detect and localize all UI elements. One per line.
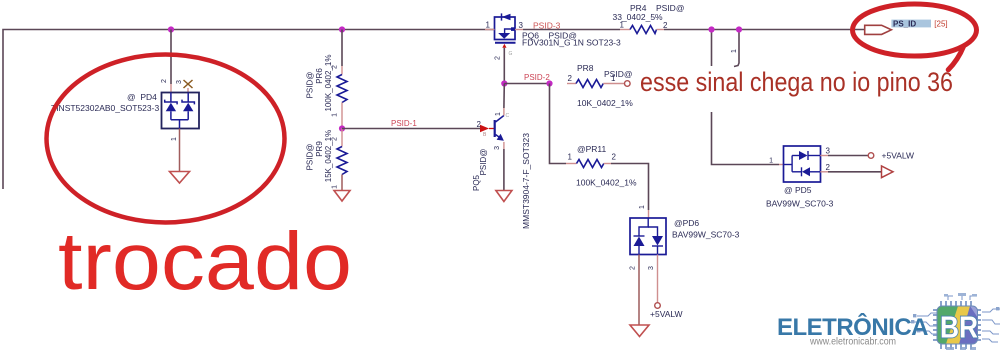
svg-text:1: 1	[495, 112, 502, 116]
mosfet PQ6 FDV301N	[495, 17, 516, 40]
wire: PD6 pin2 to ground	[638, 255, 640, 326]
wire: down from PSID-2 to PR11 row	[550, 84, 567, 164]
svg-text:BAV99W_SC70-3: BAV99W_SC70-3	[766, 199, 834, 209]
node junction at x=342 top wire	[339, 26, 345, 32]
svg-text:1: 1	[769, 158, 773, 165]
svg-text:100K_0402_1%: 100K_0402_1%	[576, 178, 637, 188]
red gate pin arrow	[502, 44, 506, 48]
svg-text:BAV99W_SC70-3: BAV99W_SC70-3	[672, 230, 740, 240]
node junction at x=171 top wire	[168, 26, 174, 32]
internal connection and source arrow	[511, 27, 515, 31]
transistor PQ5 MMST3904 NPN	[494, 120, 496, 137]
wire: stub down at x=739 with hook and pin label 1	[734, 30, 739, 67]
svg-text:PS_ID: PS_ID	[893, 19, 916, 28]
wire: PD5 pin3 to +5VALW	[820, 155, 828, 157]
svg-text:1: 1	[486, 21, 491, 30]
svg-text:2: 2	[826, 163, 831, 172]
svg-text:PSID@: PSID@	[306, 72, 315, 99]
svg-text:www.eletronicabr.com: www.eletronicabr.com	[809, 337, 896, 348]
svg-text:esse sinal chega no io pino 36: esse sinal chega no io pino 36	[640, 67, 953, 97]
svg-text:1: 1	[568, 153, 573, 162]
svg-text:2: 2	[477, 120, 482, 129]
wire: top horizontal net PSID-3 left section	[3, 30, 495, 190]
wire: PD5 pin2 to off-page arrow	[820, 171, 828, 173]
svg-text:PQ5: PQ5	[472, 174, 481, 191]
svg-text:PR6: PR6	[315, 68, 324, 84]
red ellipse around PD4	[47, 55, 285, 223]
resistor PR6 100K_0402_1% vertical	[337, 75, 347, 103]
svg-text:BR: BR	[940, 310, 978, 345]
svg-text:15K_0402_1%: 15K_0402_1%	[324, 130, 333, 183]
svg-text:@ PD4: @ PD4	[127, 92, 157, 102]
diode PD4 dual zener TVS box	[162, 93, 200, 129]
terminal circle +5VALW	[868, 153, 874, 159]
node junction PSID-2/PR8	[546, 80, 552, 86]
svg-text:PSID-1: PSID-1	[391, 119, 417, 128]
svg-text:10K_0402_1%: 10K_0402_1%	[577, 98, 633, 108]
svg-text:33_0402_5%: 33_0402_5%	[613, 12, 664, 22]
svg-text:C: C	[506, 113, 510, 119]
svg-text:1: 1	[332, 113, 339, 117]
svg-text:1: 1	[171, 137, 178, 141]
svg-text:PR8: PR8	[577, 63, 594, 73]
wire: top horizontal net right of PQ6 to PR4	[523, 29, 620, 31]
svg-text:PSID-2: PSID-2	[524, 73, 550, 82]
wire: PD6 pin3 to +5VALW	[657, 255, 659, 303]
terminal circle +5VALW	[655, 303, 661, 309]
node junction at x=711.5 top wire	[708, 26, 714, 32]
svg-text:1: 1	[332, 185, 339, 189]
svg-text:[25]: [25]	[934, 20, 947, 29]
port PS_ID pentagon	[865, 25, 892, 34]
svg-text:3: 3	[176, 80, 183, 84]
wire: emitter down to ground	[503, 142, 505, 149]
svg-text:+5VALW: +5VALW	[650, 309, 683, 319]
pin3 stub	[515, 29, 523, 31]
svg-text:1: 1	[639, 205, 646, 209]
svg-text:2: 2	[161, 79, 168, 83]
no-connect X on PD4 pin3	[187, 88, 189, 93]
wire: from top wire to PR6	[341, 30, 343, 67]
terminal circle PSID@	[625, 81, 631, 87]
svg-text:PSID@: PSID@	[604, 69, 632, 79]
wire: vertical to PD5 pin1 below red text	[712, 112, 780, 165]
ground symbol PD6	[630, 325, 649, 337]
red input arrow into PQ5 base	[480, 125, 489, 133]
red ellipse around PS_ID with tail	[853, 4, 977, 56]
ground symbol PR9	[334, 191, 350, 202]
ground symbol PD4	[170, 172, 190, 184]
chip pins	[933, 301, 981, 349]
svg-text:3: 3	[519, 21, 524, 30]
svg-text:+5VALW: +5VALW	[882, 151, 915, 161]
resistor PR9 15K_0402_1% vertical	[341, 129, 343, 147]
wire: stub down at x=711.5 from top wire	[711, 30, 713, 67]
svg-text:100K_0402_1%: 100K_0402_1%	[324, 55, 333, 112]
svg-text:1: 1	[731, 49, 738, 53]
diode PD5 BAV99W dual	[779, 164, 784, 166]
svg-text:PR9: PR9	[315, 141, 324, 157]
wire: gate down to PSID-2	[503, 48, 505, 84]
svg-text:G: G	[509, 51, 513, 57]
svg-text:trocado: trocado	[58, 216, 352, 307]
resistor PR4 33_0402_5%	[613, 3, 685, 34]
resistor PR11 100K_0402_1%	[566, 163, 577, 165]
svg-text:2: 2	[630, 266, 637, 270]
svg-text:3: 3	[648, 266, 655, 270]
node junction at x=739 top wire	[736, 26, 742, 32]
svg-text:@PD6: @PD6	[674, 218, 699, 228]
svg-text:3: 3	[826, 147, 831, 156]
resistor PR8 10K_0402_1%	[567, 83, 576, 85]
svg-text:MMST3904-7-F_SOT323: MMST3904-7-F_SOT323	[521, 133, 531, 229]
svg-text:2: 2	[612, 153, 617, 162]
svg-text:PSID-3: PSID-3	[533, 20, 561, 30]
svg-text:@ PD5: @ PD5	[784, 185, 812, 195]
svg-text:TINST52302AB0_SOT523-3: TINST52302AB0_SOT523-3	[51, 103, 159, 113]
svg-text:PSID@: PSID@	[479, 149, 488, 176]
off-page arrow port	[882, 166, 894, 178]
wire: PR11 pin2 to PD6 pin1	[611, 164, 649, 211]
wire: PD4 pin1 to ground	[179, 129, 181, 172]
node junction PSID-1 at x=342	[339, 125, 345, 131]
wire: PR4 pin2 to PS_ID port	[664, 29, 865, 31]
wire: PD4 pin2 vertical	[170, 30, 172, 85]
gate bar	[495, 42, 516, 44]
wire: net PSID-1 horizontal	[342, 128, 480, 130]
svg-text:3: 3	[494, 146, 501, 150]
diode PD6 BAV99W dual	[630, 218, 666, 255]
body diode on top edge	[501, 13, 503, 20]
svg-text:2: 2	[495, 56, 502, 60]
wire: PSID-2 horizontal	[504, 83, 549, 85]
pin1 stub	[485, 29, 495, 31]
svg-text:@PR11: @PR11	[577, 144, 607, 154]
wire: collector up to PSID-2 junction	[503, 108, 505, 116]
highlight box	[891, 20, 931, 28]
svg-text:PSID@: PSID@	[306, 144, 315, 171]
node junction gate/PSID-2	[501, 80, 507, 86]
svg-text:FDV301N_G 1N SOT23-3: FDV301N_G 1N SOT23-3	[522, 38, 621, 48]
ground symbol PQ5	[496, 191, 512, 202]
svg-text:2: 2	[568, 74, 573, 83]
logo traces left of chip	[914, 295, 1000, 342]
svg-text:B: B	[483, 132, 487, 138]
